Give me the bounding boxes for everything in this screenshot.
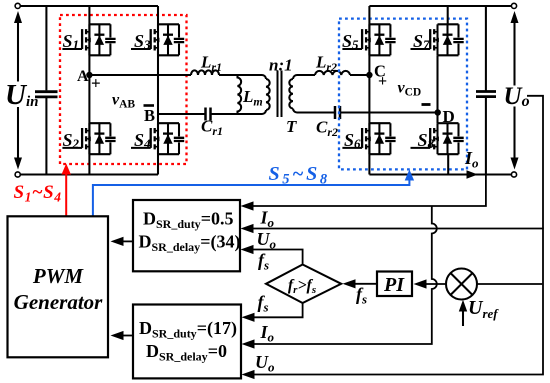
transistor S1 [62,24,115,55]
wire leg S1 S2 [88,6,90,175]
wire Cr2 to node D [341,111,438,113]
wire S7 drain drop [447,6,449,24]
node C [366,72,372,78]
wire bottom rail left [18,173,158,175]
wire leg S3 S4 [157,6,159,175]
Uref arrow [459,300,467,326]
inductor Lr1 [191,70,219,75]
wire PI to diamond [343,279,378,288]
wire fs diamond top to upper block [241,245,303,265]
arrow upper block to PWM [111,237,134,246]
svg-text:+: + [91,73,101,92]
red dashed box primary bridge [60,15,187,164]
wire top rail right [369,5,514,7]
terminal bottom-right [511,172,516,177]
wire comparator to PI [414,279,447,288]
transformer core [278,71,282,118]
node D [435,109,441,115]
wire secondary bottom to Cr2 [293,109,334,113]
wire top rail left [18,5,158,7]
PWM generator box [8,216,109,357]
inductor Lm [238,75,242,114]
svg-text:B: B [144,106,155,125]
decision diamond fr>fs [266,265,341,304]
wire node D to S8 [436,113,438,124]
upper SR block [133,200,240,271]
svg-text:PI: PI [383,274,405,296]
red control wire S1-S4 [62,164,71,217]
capacitor Cr2 [335,106,340,119]
wire node B to Cr1 [158,113,205,115]
transistor S8 [411,123,464,154]
transformer T primary winding [266,79,270,110]
transistor S5 [342,24,396,55]
transistor S7 [411,24,464,55]
arrow lower block to PWM [111,331,134,340]
comparator circle with X [446,269,477,300]
blue dashed box secondary bridge [339,19,467,170]
transformer T secondary winding [289,79,293,109]
wire node A to Lr1 [89,74,191,76]
capacitor Cout [476,6,496,175]
transistor S2 [62,123,115,154]
wire Io sense from output rail to upper block [241,175,486,211]
wire leg S5 S6 [368,6,370,175]
svg-text:A: A [77,68,89,85]
svg-text:D: D [443,107,455,126]
transistor S6 [342,123,395,154]
wire Lr2 to node C [350,74,369,76]
wire S7 source to node D [436,55,438,112]
capacitor Cin [35,6,58,175]
wire Uo sense to upper block [241,224,544,379]
wire secondary top to Lr2 [293,75,315,79]
svg-text:n:1: n:1 [269,56,293,75]
node A [86,72,92,78]
blue control wire S5-S8 [93,170,414,217]
svg-text:+: + [378,73,387,90]
wire comparator to Uo net [477,283,542,285]
transistor S3 [131,24,184,55]
PI block [377,272,412,297]
capacitor Cr1 [206,108,211,121]
lower SR block [133,305,241,379]
terminal top-right [511,3,516,8]
inductor Lr2 [315,71,350,75]
transistor S4 [131,123,184,154]
wire bottom rail right [369,173,514,175]
Uo measurement arrow [511,11,519,170]
wire fs diamond bottom to lower block [242,303,303,322]
svg-text:T: T [286,117,297,136]
wire Lr1 to transformer primary [219,75,266,79]
svg-text:Generator: Generator [14,290,103,314]
Io arrow on output rail [467,170,478,178]
terminal top-left [15,3,20,8]
wire Io vertical branch with hops [254,206,437,344]
terminal bottom-left [15,172,20,177]
wire S8 source drop [447,154,449,174]
svg-text:PWM: PWM [32,264,85,288]
Uin measurement arrow [14,11,22,170]
wire Uo sense from output label down right edge [527,96,543,229]
wire Cr1 to primary bottom [212,110,267,114]
